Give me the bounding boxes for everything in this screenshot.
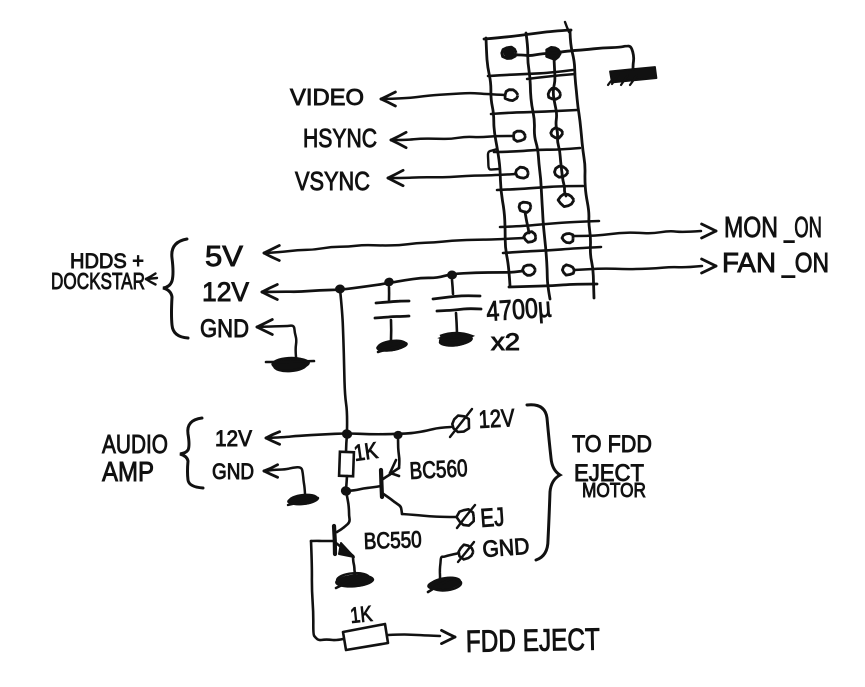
svg-text:FAN: FAN (722, 247, 776, 278)
connector J1 row line 3 (494, 148, 580, 152)
capacitor C2 bottom plate (437, 309, 481, 311)
capacitor C1 stem bottom (390, 320, 393, 340)
junction 12V rail / C1 (383, 277, 395, 288)
wire junction3 to Q2 collector (337, 491, 350, 532)
pin 4 left (516, 167, 529, 178)
connector J1 outline left edge (486, 38, 510, 286)
label EJ (479, 501, 505, 533)
svg-text:1K: 1K (349, 601, 374, 628)
junction R1 bottom / Q1 base / Q2 (340, 485, 352, 497)
capacitor C2 stem bottom (456, 313, 457, 333)
svg-text:VSYNC: VSYNC (295, 166, 370, 196)
svg-text:_ON: _ON (783, 212, 822, 244)
small arrow after DOCKSTAR (146, 274, 157, 285)
wire Q1 collector to EJ (402, 514, 456, 517)
pin 2 left (505, 90, 518, 101)
pin 5 right (558, 194, 574, 207)
transistor Q2 BC550 emitter+arrow (336, 543, 354, 557)
capacitor C1 bottom plate (375, 316, 409, 318)
label 1K R2 (349, 601, 374, 628)
svg-text:HSYNC: HSYNC (303, 123, 377, 153)
svg-text:_ON: _ON (781, 247, 829, 278)
svg-text:AUDIO: AUDIO (102, 429, 168, 459)
arrow VIDEO (381, 92, 395, 106)
pin 3 left (514, 131, 526, 141)
capacitor C2 top plate (433, 296, 480, 299)
label FAN_ON (722, 247, 829, 278)
resistor R1 1K (339, 452, 354, 476)
label 12V audio (215, 426, 252, 451)
capacitor C1 stem top (388, 287, 391, 300)
svg-text:GND: GND (212, 459, 254, 484)
wire R1 to junction3 (346, 476, 347, 490)
svg-text:MOTOR: MOTOR (582, 480, 646, 502)
label MOTOR (582, 480, 646, 502)
pin 1 right (filled) (546, 47, 560, 60)
wire junction to R1 (346, 434, 347, 452)
connector J1 bottom edge (509, 284, 597, 287)
arrow FAN_ON (702, 259, 716, 273)
terminal circle GND (458, 542, 474, 562)
svg-text:DOCKSTAR: DOCKSTAR (51, 268, 145, 294)
transistor Q2 BC550 base wire (311, 540, 334, 543)
capacitor C1 top plate (376, 301, 409, 303)
junction audio rail / Q1 emitter (393, 430, 403, 440)
pin 1 left (filled) (502, 47, 516, 59)
label HDDS + (70, 250, 144, 273)
ground symbol motor GND (426, 575, 462, 593)
label EJECT (574, 460, 644, 487)
svg-text:GND: GND (200, 315, 249, 343)
transistor Q1 BC560 emitter+arrow (383, 460, 399, 479)
wire VIDEO (381, 93, 505, 99)
svg-text:GND: GND (482, 533, 531, 562)
wire GND hdds (257, 326, 296, 357)
svg-text:12V: 12V (215, 426, 252, 451)
wire pin1 right to ground (553, 46, 634, 70)
svg-text:4700µ: 4700µ (485, 292, 552, 327)
wire VSYNC (388, 174, 516, 178)
transistor Q1 BC560 base wire (346, 486, 381, 491)
arrow GND audio (264, 465, 278, 478)
label GND terminal (482, 533, 531, 562)
label AMP (102, 456, 154, 487)
wire MON_ON (573, 231, 701, 236)
capacitor C2 stem top (452, 280, 453, 294)
brace TO FDD MOTOR (527, 405, 560, 560)
connector J1 middle column line (526, 33, 550, 299)
junction 12V rail / vertical drop (335, 284, 345, 293)
svg-text:BC560: BC560 (409, 455, 468, 485)
label GND (200, 315, 249, 343)
label 12V terminal (478, 404, 516, 434)
ground symbol top right (608, 67, 656, 85)
arrow VSYNC (388, 170, 403, 185)
wire HSYNC (391, 136, 513, 140)
label 12V (202, 277, 249, 307)
wire right column pin1 to pin5 (553, 58, 566, 196)
wire 12V rail (262, 271, 523, 292)
ground symbol C2 (438, 333, 473, 348)
label 1K R1 (352, 437, 380, 466)
label VIDEO (290, 84, 364, 110)
svg-text:12V: 12V (202, 277, 249, 307)
label TO FDD (572, 431, 652, 458)
arrow GND hdds (257, 320, 272, 335)
wire 12V drop to audio rail (340, 289, 347, 430)
connector J1 row line 2 (491, 110, 577, 114)
terminal circle EJ (457, 505, 476, 528)
wire FAN_ON (574, 266, 702, 270)
connector J1 row line 6 (503, 247, 601, 253)
wire 12V audio rail (266, 427, 451, 438)
wire Q2 base down to R2 (311, 541, 343, 640)
wire 5V (264, 238, 524, 253)
pin 2 right (548, 88, 560, 99)
svg-text:FDD EJECT: FDD EJECT (466, 622, 601, 659)
wire pin5 left to pin6 left (525, 212, 529, 233)
svg-text:x2: x2 (491, 329, 520, 356)
label DOCKSTAR (51, 268, 145, 294)
svg-text:MON: MON (724, 212, 778, 244)
pin 6 right (562, 234, 573, 243)
arrow FDD EJECT (442, 630, 456, 643)
transistor Q1 BC560 base bar (381, 470, 382, 497)
wire GND audio (264, 467, 305, 494)
svg-text:12V: 12V (478, 404, 516, 434)
svg-text:TO FDD: TO FDD (572, 431, 652, 458)
label AUDIO (102, 429, 168, 459)
connector J1 row line 1 (488, 70, 573, 76)
arrow HSYNC (391, 132, 406, 147)
junction audio rail / R1 (341, 428, 353, 440)
connector J1 outline right edge (570, 31, 594, 298)
label 4700u (485, 292, 552, 327)
bracket mark left of connector (488, 149, 499, 170)
label x2 (491, 329, 520, 356)
arrow MON_ON (702, 224, 716, 238)
arrow 5V (264, 246, 279, 261)
pin 4 right (555, 166, 569, 177)
label GND audio (212, 459, 254, 484)
wire 12V rail to Q1 emitter (398, 435, 399, 468)
label HSYNC (303, 123, 377, 153)
terminal circle 12V (450, 409, 472, 437)
label FDD EJECT (466, 622, 601, 659)
pin 7 left (523, 265, 536, 275)
wire GND terminal to ground (440, 553, 459, 580)
label MON_ON (724, 212, 822, 244)
label 5V (205, 241, 244, 273)
wire Q2 emitter to ground (353, 556, 355, 574)
svg-text:EJ: EJ (479, 501, 505, 533)
wire R2 to FDD EJECT (388, 635, 440, 636)
svg-text:VIDEO: VIDEO (290, 84, 364, 110)
connector J1 top tick (565, 22, 569, 32)
label BC550 (363, 526, 422, 554)
pin 3 right (551, 128, 563, 138)
ground symbol hdds (266, 355, 314, 372)
svg-text:1K: 1K (352, 437, 380, 466)
pin 7 right (562, 265, 574, 275)
brace AUDIO group (180, 418, 203, 488)
connector J1 top edge (484, 30, 571, 39)
label VSYNC (295, 166, 370, 196)
ground symbol Q2 emitter (334, 571, 374, 589)
label BC560 (409, 455, 468, 485)
arrow 12V audio (266, 432, 280, 445)
transistor Q2 BC550 base bar (334, 526, 335, 554)
svg-text:BC550: BC550 (363, 526, 422, 554)
junction 12V rail / C2 (447, 270, 457, 279)
connector J1 row line 4 (497, 186, 583, 190)
connector J1 row line 5 (500, 221, 599, 227)
connector J1 row line 1b (527, 74, 575, 79)
wire pin1 left to pin1 right (509, 53, 553, 56)
pin 6 left (524, 232, 536, 243)
svg-text:5V: 5V (205, 241, 244, 273)
arrow 12V (262, 285, 277, 300)
brace HDDS group (163, 239, 188, 338)
ground symbol audio (287, 493, 320, 506)
pin 5 left (519, 202, 531, 212)
resistor R2 1K (343, 624, 388, 650)
transistor Q1 BC560 collector (382, 493, 402, 514)
svg-text:AMP: AMP (102, 456, 154, 487)
ground symbol C1 (375, 339, 408, 354)
